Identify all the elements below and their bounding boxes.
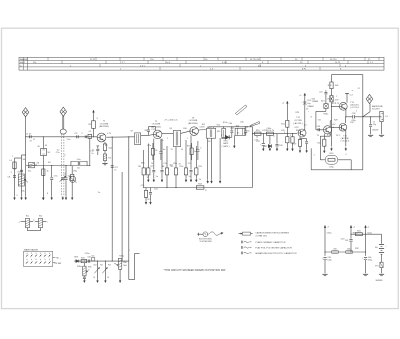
svg-text:0.7V: 0.7V [107,133,112,135]
table figures [20,59,374,71]
trimmer C2 on gang [57,150,66,182]
svg-text:T2: T2 [155,121,158,123]
ground arrow C14 [161,179,163,182]
svg-text:4.5V: 4.5V [327,135,332,137]
svg-text:S1a: S1a [26,215,30,217]
coil L4 box [9,160,16,169]
svg-text:C60: C60 [333,248,336,250]
svg-text:S2: S2 [48,152,51,154]
svg-text:C6: C6 [77,168,81,170]
capacitor C11 [90,146,99,156]
ferrite coil S1 [18,172,25,186]
ground arrow L4 [14,197,16,200]
AGC line 2 [120,180,122,183]
svg-text:10µ: 10µ [373,124,377,126]
capacitor C47 electrolytic [256,134,265,148]
driver transformer S14 [307,100,328,108]
label IF frequency [165,120,179,122]
speaker tag arrow left [331,147,333,150]
svg-text:1.5V: 1.5V [332,124,337,126]
svg-text:40n: 40n [170,165,173,167]
svg-text:5kΩ: 5kΩ [123,265,127,267]
svg-text:L4: L4 [9,160,12,162]
resistor R32 box [331,248,339,253]
test point arrow T1 [93,110,95,121]
svg-text:452: 452 [217,131,221,133]
svg-text:1n: 1n [244,132,246,134]
dial pointer [250,122,260,127]
svg-text:2k: 2k [155,150,157,152]
label C11 value [91,153,93,155]
svg-text:C53: C53 [319,92,322,94]
svg-text:C61: C61 [345,240,348,242]
svg-text:1k: 1k [199,179,201,181]
svg-text:50n: 50n [91,255,94,257]
ground arrow AGC [219,180,221,183]
wire telescopic aerial [63,116,64,129]
decoupling line [325,251,366,253]
coil lead left [19,221,26,223]
svg-text:R29: R29 [334,120,339,122]
svg-text:C2a: C2a [56,152,61,154]
svg-text:C4: C4 [75,133,79,135]
detector output line [128,137,130,280]
svg-text:S1b: S1b [39,215,42,217]
electrolytic C64 [362,257,373,273]
svg-text:C45: C45 [240,122,245,124]
svg-text:40: 40 [45,145,48,147]
coil S1 core arrow [25,179,28,182]
capacitor C50 [300,139,308,150]
svg-text:+2: +2 [353,227,356,229]
svg-text:2n: 2n [92,150,94,152]
capacitor C65 [87,256,90,262]
svg-text:5n: 5n [156,176,158,178]
svg-text:R10: R10 [180,166,185,168]
svg-text:1: 1 [187,138,189,140]
svg-text:100µ: 100µ [327,260,332,262]
svg-text:L1: L1 [33,139,36,141]
resistor R7 [147,144,154,179]
aerial diamond telescopic [60,107,67,116]
svg-text:( AC128 ): ( AC128 ) [350,103,359,106]
wave range switch box [24,251,53,266]
svg-text:R16 4.7k: R16 4.7k [266,130,275,132]
label pot 2 [107,277,109,279]
coil S3 hatched box [28,163,37,168]
svg-text:0.2V: 0.2V [295,127,300,129]
svg-text:( AC126 ): ( AC126 ) [293,122,303,125]
ratio detector coil S13 [222,128,226,138]
resistor R26 [330,82,339,96]
volume pot wiper [114,263,118,265]
capacitor C13 [152,139,155,179]
svg-text:1: 1 [356,111,358,113]
supply arrow +1 T4 [299,93,305,97]
AGC line 3 [121,172,123,261]
svg-text:1k: 1k [147,177,149,179]
svg-text:PLATE CERAMIC CAPACITOR: PLATE CERAMIC CAPACITOR [255,241,285,244]
wire T5 emitter [320,133,330,160]
svg-text:c: c [47,221,48,223]
svg-text:V: V [97,118,99,120]
ground arrow volume pot [119,279,121,282]
svg-text:( AF116B ): ( AF116B ) [188,122,199,125]
capacitor C61 [345,240,353,253]
ground arrow C16 [150,201,152,204]
wire feedback right [338,160,352,170]
svg-text:R11: R11 [199,166,203,168]
legend ceramic symbol [241,241,251,244]
svg-text:25°C: 25°C [336,135,341,137]
svg-text:2n: 2n [114,169,116,171]
return line [129,253,140,279]
svg-text:R36a: R36a [119,256,125,258]
svg-text:470µ: 470µ [368,260,373,262]
svg-text:452: 452 [207,141,211,143]
battery lower cells [379,254,384,262]
wire detector top [209,126,253,127]
svg-text:+: + [385,246,387,248]
svg-text:C15: C15 [188,163,193,165]
label electronic voltmeter [199,239,212,244]
svg-text:SERIES: SERIES [376,280,384,282]
coil LT1 MW winding [25,215,30,227]
resistor R1 [88,121,95,138]
gang capacitor dashed link left [61,134,63,196]
oscillator coil S5 [70,176,77,183]
ground arrow S2 [42,197,44,200]
svg-text:CARBON RESISTOR E24 SERIES: CARBON RESISTOR E24 SERIES [255,231,289,234]
wire T2 collector [162,132,174,134]
resistor R21 [281,105,289,134]
capacitor C58 electrolytic [351,113,356,122]
supply arrow +2 R21 [282,101,288,104]
svg-text:OC169B: OC169B [100,123,109,125]
label power [372,129,379,131]
svg-text:R21: R21 [281,123,286,125]
svg-text:+2: +2 [282,102,285,104]
ground arrow C47 [262,148,264,151]
svg-text:R7a: R7a [148,145,153,147]
svg-text:T11: T11 [318,120,322,122]
supply arrow +1b [365,225,371,228]
svg-text:S11: S11 [202,124,206,126]
svg-text:52 51: 52 51 [90,59,96,61]
electrolytic C63 [322,257,333,273]
svg-text:8: 8 [47,193,49,195]
svg-text:SW: SW [24,59,27,61]
label T7 [341,122,355,142]
svg-text:R6a: R6a [141,163,146,165]
svg-text:8: 8 [205,190,207,192]
fuse box battery [375,262,383,267]
wire AF chain [253,133,298,134]
trimmer C5 box [85,134,91,165]
ground arrow R24 [323,150,325,153]
svg-text:S4: S4 [23,159,26,161]
svg-text:BY1: BY1 [375,265,378,267]
svg-text:C61a: C61a [347,248,352,250]
svg-text:C8a: C8a [21,191,26,193]
svg-text:SK →: SK → [56,258,61,260]
svg-text:b: b [33,219,34,221]
svg-text:4.5V: 4.5V [335,99,340,101]
wire battery ground [381,268,383,274]
dial alignment table grid [19,57,384,70]
svg-text:R5: R5 [108,158,111,160]
wire aerial coil column [25,137,27,197]
capacitor C17 [230,127,233,138]
capacitor C4 [75,133,79,138]
svg-text:C65: C65 [87,256,90,258]
wire detector ground [233,135,235,144]
chassis jack [379,135,384,136]
capacitor T2 emitter [159,139,162,160]
svg-text:C: C [11,172,13,174]
svg-text:0.4: 0.4 [350,95,354,97]
svg-text:2k: 2k [179,164,181,166]
diode GR2 [263,144,271,148]
capacitor C48 [276,134,284,148]
resistor R6 [138,150,145,188]
svg-text:750mW: 750mW [372,129,379,131]
resistor R9 [171,147,178,188]
capacitor C7 [14,169,23,172]
svg-text:*: * [326,144,327,147]
diode GR1 [222,135,232,139]
label series [376,280,384,282]
transistor T2 [153,130,162,139]
resistor T3 bias [190,143,193,160]
svg-text:58 750: 58 750 [330,59,337,61]
ground arrow IFT3 [207,180,209,183]
svg-text:SOCKET: SOCKET [372,109,381,111]
svg-text:4n: 4n [163,149,165,151]
wire feedback left [320,159,325,161]
resistor R31 [351,230,366,235]
svg-text:2n: 2n [91,153,93,155]
ground arrow decoupling [145,201,147,204]
svg-text:50n: 50n [94,265,97,267]
svg-text:C63a: C63a [327,233,333,235]
capacitor C54 electrolytic [301,100,311,105]
svg-text:R31: R31 [357,230,360,232]
svg-text:+1: +1 [299,95,302,97]
chassis C59 [368,135,373,136]
svg-text:C1 47: C1 47 [26,133,32,135]
voltmeter symbol [197,232,207,237]
transistor T4 [298,129,306,137]
svg-text:a: a [19,221,21,223]
svg-text:R30: R30 [330,153,335,155]
coil S2 box [41,137,51,156]
ground arrow detector [233,145,235,148]
svg-text:S7: S7 [131,131,134,133]
svg-text:2: 2 [129,250,131,252]
wave band pointer [235,105,247,115]
coil link bracket [28,228,41,231]
svg-text:R35: R35 [88,266,91,268]
diode GR3 [74,256,79,262]
label T1 [99,121,112,135]
svg-text:T5: T5 [317,135,320,137]
IF transformer S7 S8 [131,131,141,145]
svg-text:R35a: R35a [77,266,83,268]
svg-text:+1: +1 [367,227,370,229]
svg-text:B4: B4 [375,247,377,249]
oscillator bus [26,165,91,166]
wire T7 collector [345,117,347,123]
tone cap C66 [91,255,94,261]
svg-text:5k: 5k [93,277,95,279]
svg-text:16 75: 16 75 [335,62,341,64]
supply rail +2 down [350,229,351,239]
svg-text:0.65V: 0.65V [200,126,206,128]
svg-text:R9a: R9a [173,163,178,165]
svg-text:*THIS CIRCUIT HAS BEEN DRAWN I: *THIS CIRCUIT HAS BEEN DRAWN IN POSITION… [164,269,226,272]
svg-text:1: 1 [112,257,114,259]
output line [346,116,352,118]
ground arrow R2 [42,197,44,200]
resistor R2 [42,166,45,197]
svg-text:LW MW: LW MW [55,263,62,265]
battery BY1 [375,245,387,255]
svg-text:WAVE RANGE: WAVE RANGE [24,248,38,251]
capacitor C53 above S13 [319,90,327,104]
svg-text:C19: C19 [141,185,146,187]
wire feedback stub [310,148,312,170]
chassis C63 [322,274,327,275]
svg-text:C1: C1 [358,88,361,90]
transistor T7 [339,124,347,132]
position note [164,269,226,272]
capacitor C9 [50,166,53,197]
svg-text:R26: R26 [328,85,333,87]
svg-text:5n: 5n [248,131,250,133]
thermistor R5 [103,151,112,161]
wire volume pot down [119,269,121,279]
wire T6 emitter [345,109,346,117]
svg-text:S12: S12 [217,124,221,126]
svg-text:( OA79 ): ( OA79 ) [222,145,230,148]
supply arrow +2 [350,225,356,228]
legend resistor symbol [239,232,253,235]
wire aerial 1 down [25,117,27,137]
capacitor C18 [244,127,247,136]
volume pot R36 [118,258,121,269]
resistor R8 [162,146,169,188]
svg-text:4 OHM 10%: 4 OHM 10% [255,235,267,237]
ground arrow C13 [153,179,155,182]
earphone diamond [366,94,373,103]
wire RF bus mid [0,0,1,1]
svg-text:C58: C58 [352,113,357,115]
svg-text:OC169B: OC169B [189,120,198,122]
svg-text:R32: R32 [355,248,360,250]
wire C2 column [22,155,26,196]
svg-text:( AF114B ): ( AF114B ) [99,125,110,128]
svg-text:0.2: 0.2 [304,124,308,126]
svg-text:( OC74 )1: ( OC74 )1 [341,141,351,143]
ground arrow R10 [185,179,187,182]
thermistor R28 [330,96,339,102]
wire T3 base [181,131,190,133]
aerial diamond MW [22,108,29,117]
svg-text:S9: S9 [170,128,173,130]
svg-text:S11a: S11a [207,127,212,129]
right vertical rail [362,75,364,170]
chassis C64 [363,274,368,275]
capacitor C8 [8,176,16,179]
wire output to jack [355,116,382,117]
IF ground bus [143,187,252,188]
svg-text:m: m [20,65,22,67]
transistor T1 [97,133,106,142]
svg-text:1: 1 [336,96,338,98]
svg-text:OA79: OA79 [223,142,229,145]
supply rail +1 down [365,229,366,256]
svg-text:R15: R15 [256,130,261,132]
resistor R33 box [345,248,353,253]
resistor R24 [317,134,326,150]
svg-text:5n: 5n [161,140,163,142]
svg-text:C56: C56 [316,126,321,128]
AGC line 1 [111,137,118,261]
svg-text:470µ: 470µ [329,167,334,169]
resistor R14 [196,184,204,190]
svg-text:OC169B: OC169B [152,124,161,126]
svg-text:R3a: R3a [74,171,79,173]
label T6 [335,102,360,109]
svg-text:OC75N: OC75N [294,120,302,122]
label pot 1 [93,277,95,279]
capacitor C12 [147,127,155,132]
wire jack down [381,122,383,135]
ground arrow aerial column [25,197,27,200]
miscellaneous value labels [11,85,373,268]
wire T6 collector tag [345,93,349,102]
svg-text:T1: T1 [103,121,106,123]
svg-text:1.7V: 1.7V [335,103,340,105]
svg-text:5: 5 [200,148,202,150]
svg-text:1: 1 [314,155,316,157]
svg-text:C2: C2 [57,150,61,152]
ground arrow GR2 [269,148,271,151]
svg-text:748864: 748864 [307,106,313,108]
svg-text:748864: 748864 [312,101,320,103]
svg-text:C44: C44 [229,123,234,125]
svg-text:2: 2 [65,155,67,157]
svg-text:56 750 16: 56 750 16 [250,59,260,61]
svg-text:+: + [260,144,262,146]
AGC takeoff line [219,138,221,180]
ground arrow R19 [299,149,301,152]
resistor T2 bias [151,143,154,160]
svg-text:R23: R23 [296,112,301,114]
wire T7 base [332,126,340,128]
wire T5 base [316,126,323,131]
coil LT1 LW winding [38,215,42,227]
svg-text:C8: C8 [8,177,12,179]
wire T2 base [149,134,154,135]
svg-text:LS: LS [385,116,388,118]
svg-text:5k: 5k [107,277,109,279]
label T3 [188,117,206,128]
pot column 2 [102,261,107,279]
svg-text:R19: R19 [293,143,298,145]
gang capacitor dashed link right [63,134,65,196]
